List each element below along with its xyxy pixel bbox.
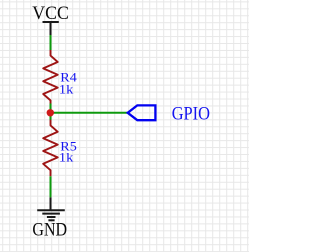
wire junction to GPIO port <box>51 112 128 114</box>
svg-text:GND: GND <box>32 220 67 241</box>
svg-text:1k: 1k <box>59 150 74 165</box>
junction node <box>47 109 54 116</box>
wire R4 to R5 <box>50 104 52 121</box>
port GPIO <box>128 105 156 120</box>
svg-text:GPIO: GPIO <box>172 103 210 124</box>
ground symbol <box>37 197 65 220</box>
svg-text:1k: 1k <box>59 82 74 97</box>
resistor R5 <box>43 120 58 177</box>
resistor R4 <box>43 50 58 104</box>
power symbol VCC <box>43 22 59 35</box>
wire VCC to R4 <box>50 35 52 51</box>
wire R5 to GND <box>50 176 52 197</box>
svg-text:VCC: VCC <box>32 3 69 24</box>
